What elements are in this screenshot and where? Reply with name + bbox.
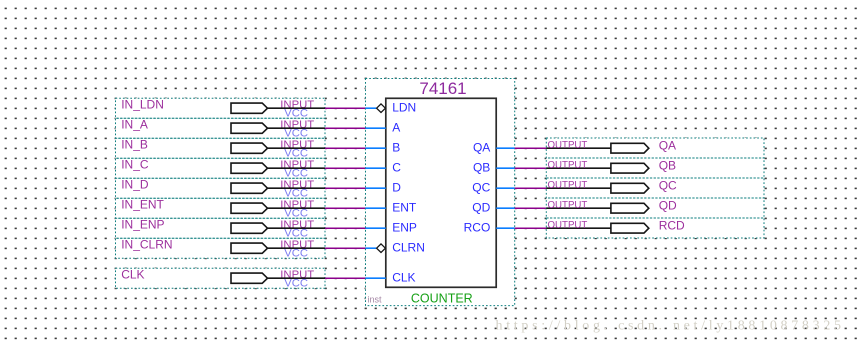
wire IN_D to D (325, 187, 366, 189)
input pin IN_ENT (116, 198, 326, 220)
port RCO (pin stub) (464, 221, 515, 235)
wire IN_ENT to ENT (325, 207, 366, 209)
svg-text:CLK: CLK (121, 268, 144, 282)
wire IN_LDN to LDN (325, 107, 366, 109)
svg-text:RCO: RCO (464, 221, 491, 235)
svg-text:QB: QB (473, 161, 490, 175)
port QD (pin stub) (472, 201, 514, 215)
svg-text:OUTPUT: OUTPUT (548, 180, 588, 191)
input pin IN_CLRN (116, 238, 326, 260)
input pin IN_C (116, 158, 326, 180)
svg-text:QD: QD (472, 201, 490, 215)
svg-text:QC: QC (659, 178, 677, 192)
svg-text:IN_CLRN: IN_CLRN (121, 238, 172, 252)
port B (pin stub) (366, 141, 401, 155)
wire QD to QD (515, 207, 547, 209)
svg-text:IN_A: IN_A (121, 118, 148, 132)
wire IN_CLRN to CLRN (325, 247, 366, 249)
svg-text:ENT: ENT (392, 201, 417, 215)
svg-text:RCD: RCD (659, 218, 685, 232)
svg-text:C: C (392, 161, 401, 175)
svg-text:IN_ENP: IN_ENP (121, 218, 164, 232)
svg-text:QC: QC (472, 181, 490, 195)
svg-text:IN_C: IN_C (121, 158, 149, 172)
74161 block background (366, 79, 515, 306)
port CLK (pin stub) (366, 271, 416, 285)
svg-text:ENP: ENP (392, 221, 417, 235)
output pin QD (546, 198, 764, 218)
wire IN_ENP to ENP (325, 227, 366, 229)
port QA (pin stub) (473, 141, 515, 155)
svg-text:IN_ENT: IN_ENT (121, 198, 164, 212)
svg-text:QB: QB (659, 158, 676, 172)
input pin IN_LDN (116, 98, 326, 120)
port ENT (pin stub) (366, 201, 417, 215)
wire IN_B to B (325, 147, 366, 149)
wire QB to QB (515, 167, 547, 169)
wire QA to QA (515, 147, 547, 149)
input pin IN_ENP (116, 218, 326, 240)
svg-text:IN_LDN: IN_LDN (121, 98, 164, 112)
wire CLK to CLK (325, 277, 366, 279)
svg-text:https://blog. csdn. net/ly1881: https://blog. csdn. net/ly18810878325 (496, 318, 845, 333)
port A (pin stub) (366, 121, 401, 135)
input pin CLK (116, 268, 326, 290)
input pin IN_B (116, 138, 326, 160)
input pin IN_D (116, 178, 326, 200)
svg-text:CLK: CLK (392, 271, 415, 285)
svg-text:D: D (392, 181, 401, 195)
svg-text:IN_D: IN_D (121, 178, 149, 192)
port D (pin stub) (366, 181, 402, 195)
svg-text:OUTPUT: OUTPUT (548, 220, 588, 231)
port CLRN (pin stub) (366, 241, 425, 255)
output pin group background (546, 138, 764, 238)
svg-text:LDN: LDN (392, 101, 416, 115)
output pin RCD (546, 218, 764, 238)
wire IN_C to C (325, 167, 366, 169)
wire RCO to RCD (515, 227, 547, 229)
svg-text:COUNTER: COUNTER (411, 292, 473, 306)
port QB (pin stub) (473, 161, 515, 175)
output pin QC (546, 178, 764, 198)
input pin IN_A (116, 118, 326, 140)
svg-text:CLRN: CLRN (392, 241, 425, 255)
svg-text:B: B (392, 141, 400, 155)
wire QC to QC (515, 187, 547, 189)
svg-text:inst: inst (368, 294, 383, 304)
output pin QB (546, 158, 764, 178)
svg-text:OUTPUT: OUTPUT (548, 200, 588, 211)
wire IN_A to A (325, 127, 366, 129)
svg-text:74161: 74161 (419, 79, 466, 98)
svg-text:QD: QD (659, 198, 677, 212)
svg-text:QA: QA (473, 141, 490, 155)
svg-text:A: A (392, 121, 400, 135)
port LDN (pin stub) (366, 101, 417, 115)
svg-text:OUTPUT: OUTPUT (548, 140, 588, 151)
svg-text:IN_B: IN_B (121, 138, 148, 152)
svg-text:INPUT: INPUT (280, 99, 314, 111)
output pin QA (546, 138, 764, 158)
port ENP (pin stub) (366, 221, 417, 235)
port QC (pin stub) (472, 181, 514, 195)
port C (pin stub) (366, 161, 402, 175)
svg-text:OUTPUT: OUTPUT (548, 160, 588, 171)
74161 block U1 COUNTER (366, 79, 515, 306)
svg-text:QA: QA (659, 138, 676, 152)
input pin group background (116, 98, 326, 258)
